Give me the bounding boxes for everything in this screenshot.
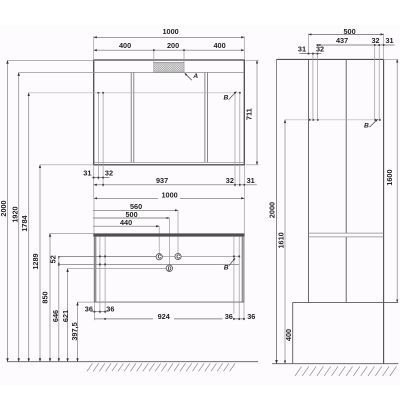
dim col 1784 bbox=[28, 93, 30, 362]
dim 711 extensions bbox=[246, 59, 259, 61]
bottom box left edge bbox=[292, 302, 294, 363]
svg-text:400: 400 bbox=[214, 41, 226, 50]
faucet hole circle C2 bbox=[175, 253, 181, 259]
svg-text:200: 200 bbox=[167, 41, 179, 50]
bottom extensions left bbox=[94, 302, 96, 320]
washbasin dim extensions bbox=[93, 198, 95, 233]
svg-text:B: B bbox=[364, 122, 369, 129]
bottom extensions right bbox=[233, 302, 235, 320]
svg-text:1610: 1610 bbox=[276, 232, 285, 248]
dim col 1289 bbox=[39, 165, 41, 362]
floor line right bbox=[272, 363, 398, 365]
bottom dim 36/36 left short line bbox=[92, 311, 107, 313]
svg-text:1289: 1289 bbox=[31, 253, 40, 269]
svg-text:32: 32 bbox=[316, 45, 324, 54]
svg-text:400: 400 bbox=[119, 41, 131, 50]
dim col 646 with 52 bracket bbox=[58, 256, 60, 361]
svg-text:52: 52 bbox=[49, 255, 58, 263]
dim 1600 top extension bbox=[384, 58, 399, 60]
countertop slab bbox=[93, 233, 244, 236]
dim line 937/32/31 under mirror bbox=[94, 184, 257, 186]
dim line 31/32 under mirror left bbox=[92, 177, 110, 179]
dim line 1000 (washbasin) bbox=[94, 197, 244, 199]
top dim line 1000 (mirror) bbox=[94, 36, 245, 38]
mirror box bottom extensions bbox=[93, 165, 95, 199]
dim 711 vertical line bbox=[256, 60, 258, 165]
top dim line 400/200/400 bbox=[94, 49, 245, 51]
callout B arrow (tall cabinet) bbox=[369, 119, 377, 127]
body inner panel lines left bbox=[99, 237, 101, 303]
dim line 31/32 (tall cabinet left) bbox=[300, 53, 322, 55]
hinge level line (tall cabinet) bbox=[285, 119, 380, 121]
svg-text:31: 31 bbox=[386, 36, 394, 45]
drain circle D bbox=[166, 265, 172, 271]
dim col 397,5 bbox=[77, 302, 79, 362]
svg-text:1000: 1000 bbox=[162, 190, 178, 199]
svg-text:36: 36 bbox=[247, 312, 255, 321]
tall cabinet left side edge / 2000 dim line bbox=[276, 59, 278, 363]
dim col 1920 bbox=[18, 73, 20, 362]
dim line 500 bbox=[93, 217, 169, 219]
cabinet body bottom bbox=[94, 301, 244, 303]
dim col 621 bbox=[67, 269, 69, 362]
callout B arrow (washbasin) bbox=[229, 258, 235, 265]
connector 850 bbox=[50, 232, 93, 234]
dimension tick marks bbox=[93, 44, 385, 320]
dim line 437/32/31 bbox=[317, 44, 394, 46]
svg-text:646: 646 bbox=[51, 310, 60, 322]
dim 1600 vertical bbox=[396, 59, 398, 302]
svg-text:D: D bbox=[168, 266, 172, 272]
svg-text:A: A bbox=[192, 73, 198, 80]
svg-text:C: C bbox=[158, 255, 162, 261]
svg-text:1784: 1784 bbox=[20, 214, 29, 231]
svg-text:400: 400 bbox=[284, 329, 293, 341]
svg-text:31: 31 bbox=[247, 176, 255, 185]
hinge extension lines top-left bbox=[312, 54, 314, 120]
svg-text:32: 32 bbox=[105, 168, 113, 177]
tall cabinet right edge bbox=[383, 59, 385, 363]
hinge extension lines top-right bbox=[374, 45, 376, 120]
tall cabinet centre door line bbox=[345, 59, 347, 233]
cabinet body left edge (double) bbox=[93, 237, 95, 303]
dim 1610/400 vertical bbox=[284, 120, 286, 364]
svg-text:B: B bbox=[224, 95, 229, 102]
cabinet body right edge (double) bbox=[241, 237, 243, 303]
label 36 / 36 right bbox=[223, 314, 235, 321]
connector 1289 bbox=[40, 164, 94, 166]
svg-text:500: 500 bbox=[344, 27, 356, 36]
dim 500 extensions bbox=[308, 33, 310, 53]
mirror cabinet inner top shelf line bbox=[94, 72, 245, 74]
svg-text:32: 32 bbox=[226, 176, 234, 185]
dim line 560 bbox=[93, 209, 178, 211]
floor hatching right bbox=[295, 366, 396, 376]
body inner panel lines right bbox=[233, 237, 235, 303]
top dim extensions bbox=[93, 36, 95, 60]
svg-text:36: 36 bbox=[225, 312, 233, 321]
drawer gap line upper bbox=[59, 255, 156, 257]
callout A arrow bbox=[185, 73, 192, 80]
floor hatching left bbox=[87, 363, 235, 371]
52 bracket arrows bbox=[58, 256, 60, 264]
svg-text:437: 437 bbox=[336, 36, 348, 45]
drawer gap line lower bbox=[59, 263, 240, 265]
mirror door bottom line bbox=[94, 161, 245, 163]
svg-text:937: 937 bbox=[156, 176, 168, 185]
svg-text:32: 32 bbox=[372, 36, 380, 45]
svg-text:31: 31 bbox=[83, 168, 91, 177]
svg-text:621: 621 bbox=[61, 310, 70, 322]
svg-text:C: C bbox=[176, 254, 180, 260]
svg-text:850: 850 bbox=[41, 291, 50, 303]
svg-text:36: 36 bbox=[85, 304, 93, 313]
mirror door divider right (double line) bbox=[204, 73, 206, 163]
svg-text:2000: 2000 bbox=[0, 200, 8, 216]
svg-text:1600: 1600 bbox=[385, 169, 394, 185]
dim col 850 bbox=[49, 233, 51, 361]
bottom box top line bbox=[293, 301, 399, 303]
faucet hole circle C1 bbox=[156, 254, 162, 260]
bottom dim 924/36/36 long line bbox=[95, 318, 257, 320]
mirror cabinet outer box bbox=[94, 60, 245, 165]
shelf band bbox=[309, 232, 384, 234]
svg-text:B: B bbox=[224, 265, 229, 272]
svg-text:31: 31 bbox=[298, 45, 306, 54]
svg-text:1920: 1920 bbox=[11, 206, 20, 222]
hinge level line through mirror bbox=[29, 92, 240, 94]
tall cabinet top bbox=[277, 58, 384, 60]
hinge dots mirror bbox=[98, 92, 241, 94]
tall cabinet front-left panel line bbox=[308, 59, 310, 302]
dim col 2000 bbox=[7, 60, 9, 361]
hinge dots (tall cabinet) bbox=[309, 119, 381, 121]
connector 1920 bbox=[19, 72, 94, 74]
mirror door divider left (double line) bbox=[130, 73, 132, 163]
dim line 500 (tall cabinet) bbox=[309, 33, 384, 35]
connector 397,5 bbox=[78, 301, 95, 303]
svg-text:36: 36 bbox=[106, 304, 114, 313]
svg-text:2000: 2000 bbox=[268, 202, 277, 218]
drain line through D bbox=[68, 268, 173, 270]
connector 2000 bbox=[8, 59, 94, 61]
svg-text:440: 440 bbox=[120, 218, 132, 227]
svg-text:1000: 1000 bbox=[163, 27, 179, 36]
dots on gap lines bbox=[99, 256, 240, 266]
callout B arrow (mirror) bbox=[229, 92, 237, 100]
lamp hatched rectangle bbox=[154, 62, 184, 72]
svg-text:711: 711 bbox=[245, 108, 254, 120]
dim line 440 bbox=[93, 225, 159, 227]
floor line left bbox=[7, 361, 258, 363]
svg-text:397,5: 397,5 bbox=[70, 322, 79, 340]
svg-text:924: 924 bbox=[158, 312, 171, 321]
mirror hinge extension lines bbox=[97, 93, 99, 180]
